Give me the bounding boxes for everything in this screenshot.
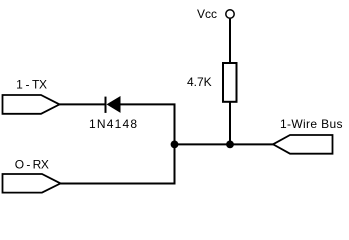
- wire diode D1 anode right then down to left junction: [120, 104, 175, 144]
- svg-text:1-Wire Bus: 1-Wire Bus: [280, 117, 343, 131]
- svg-text:1N4148: 1N4148: [89, 117, 138, 131]
- wire resistor R1 bottom to bus junction: [229, 102, 231, 144]
- power terminal Vcc: [226, 10, 234, 18]
- resistor R1: [223, 63, 237, 102]
- svg-text:4.7K: 4.7K: [187, 75, 212, 89]
- wire bus junctions to 1-Wire Bus port: [175, 143, 274, 145]
- wire 1-TX port to diode D1 cathode: [60, 103, 106, 105]
- port 1-Wire Bus: [273, 135, 333, 154]
- wire Vcc terminal to resistor R1 top: [229, 19, 231, 63]
- port 1-TX: [3, 95, 60, 114]
- diode D1 (cathode bar left, triangle pointing left): [106, 96, 121, 113]
- port O-RX: [3, 174, 61, 193]
- svg-text:Vcc: Vcc: [197, 7, 217, 21]
- junction dot left (diode branch / bus): [171, 141, 179, 149]
- svg-text:O - RX: O - RX: [15, 157, 49, 171]
- svg-text:1 - TX: 1 - TX: [16, 77, 47, 91]
- wire left junction down to O-RX row: [60, 144, 175, 183]
- junction dot right (resistor / bus): [226, 141, 234, 149]
